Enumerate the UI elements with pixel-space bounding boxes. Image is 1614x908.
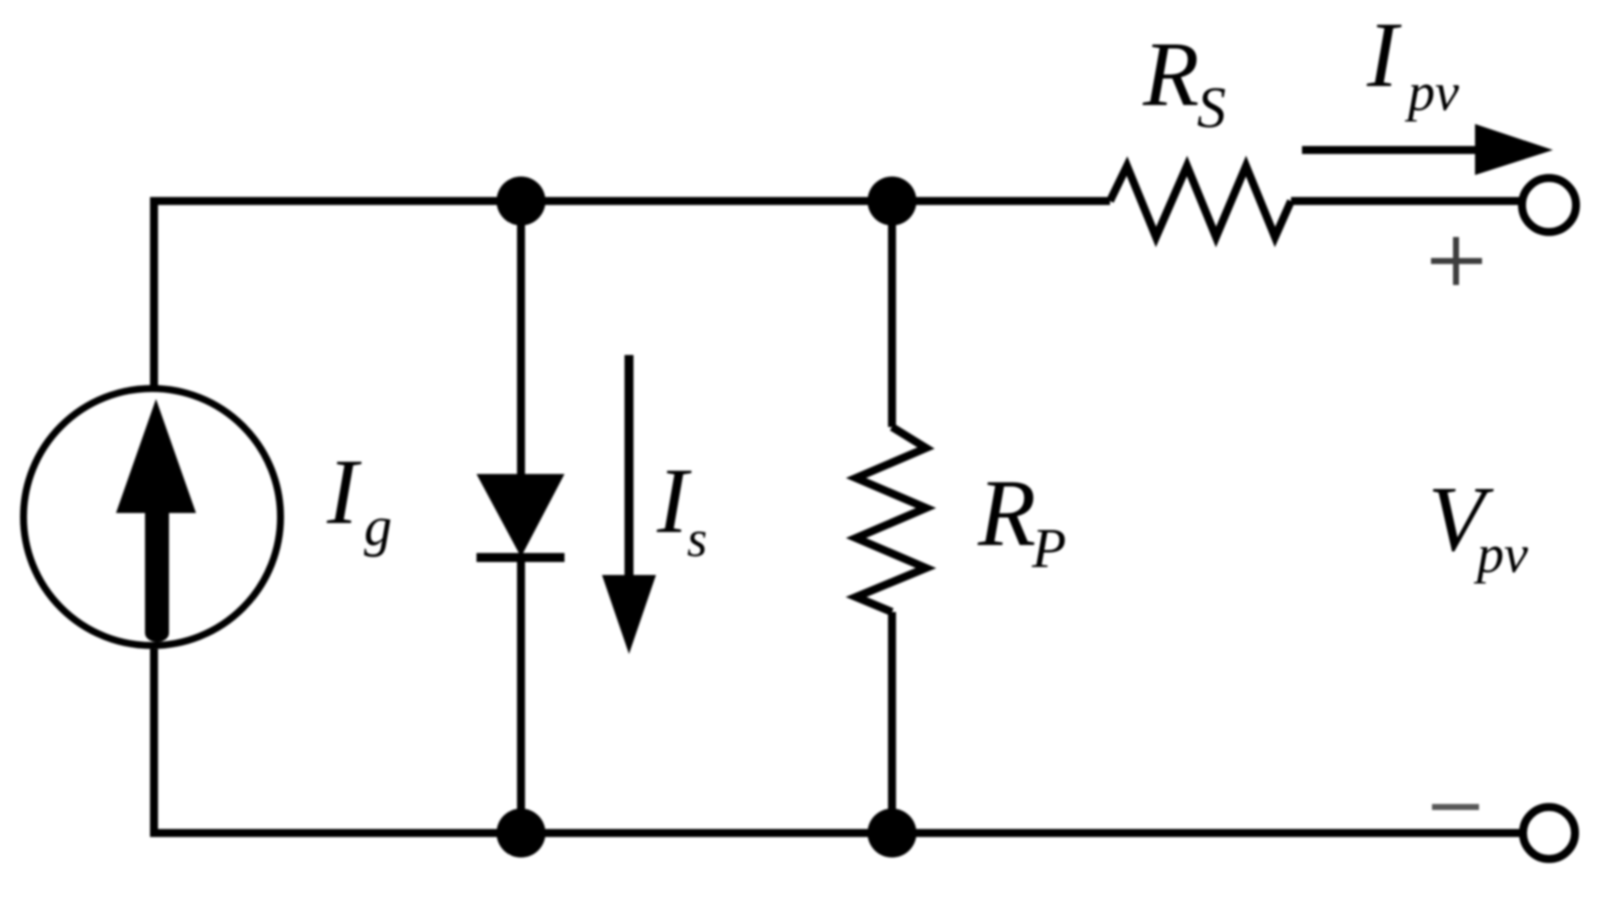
svg-text:I: I xyxy=(326,441,362,544)
svg-text:R: R xyxy=(977,460,1036,566)
svg-text:s: s xyxy=(687,511,707,568)
svg-text:I: I xyxy=(1366,4,1402,107)
svg-text:P: P xyxy=(1031,518,1066,580)
svg-text:pv: pv xyxy=(1404,62,1459,122)
svg-text:g: g xyxy=(364,496,392,558)
svg-text:pv: pv xyxy=(1473,524,1528,584)
svg-text:R: R xyxy=(1142,23,1199,125)
svg-text:S: S xyxy=(1197,75,1226,140)
